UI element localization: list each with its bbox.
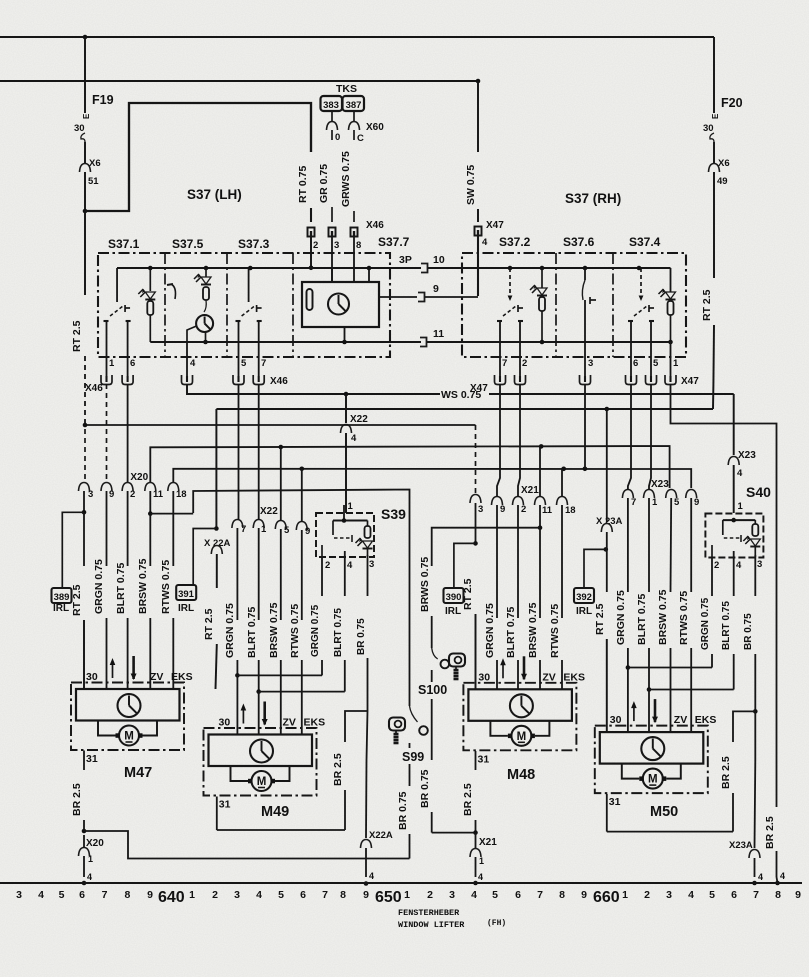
connector X60 pin 0 [327, 122, 338, 131]
svg-text:4: 4 [471, 889, 477, 901]
wire GR 0.75 from TKS 383 [331, 111, 333, 121]
svg-text:S39: S39 [381, 506, 406, 522]
svg-text:X23: X23 [651, 479, 669, 490]
svg-text:RTWS 0.75: RTWS 0.75 [289, 604, 301, 658]
svg-text:31: 31 [478, 753, 490, 765]
svg-text:M48: M48 [507, 767, 535, 783]
switch S37.4 [637, 266, 642, 271]
wire S40 pin3 down to X23A [754, 711, 756, 760]
wire F19 branch to S37 (LH) pin 2 [83, 209, 88, 214]
svg-text:31: 31 [609, 796, 621, 808]
svg-text:X6: X6 [89, 158, 101, 169]
svg-text:X20: X20 [86, 838, 104, 849]
feeds into S37.7 [367, 266, 372, 271]
svg-text:BRWS 0.75: BRWS 0.75 [419, 557, 431, 612]
wire F19 main RT 2.5 down left side [84, 211, 86, 295]
module S37.7 inner housing [302, 282, 379, 327]
wire BR 2.5 M50 ground loop [733, 711, 755, 742]
svg-text:RT 2.5: RT 2.5 [71, 320, 83, 352]
svg-text:4: 4 [369, 871, 374, 881]
svg-text:X21: X21 [521, 485, 539, 496]
svg-text:3P: 3P [399, 254, 412, 266]
S37 (LH) housing [98, 253, 390, 357]
svg-text:BLRT 0.75: BLRT 0.75 [636, 593, 648, 645]
svg-text:30: 30 [219, 717, 231, 729]
wire S40 pin3 BR [754, 555, 756, 596]
svg-text:4: 4 [256, 889, 262, 901]
S37.5 switch lever [171, 284, 176, 299]
svg-text:9: 9 [795, 889, 801, 901]
svg-text:1: 1 [261, 524, 267, 535]
junction M50 supply [605, 407, 610, 412]
label box 389 IRL [62, 512, 84, 588]
svg-text:BLRT 0.75: BLRT 0.75 [721, 601, 732, 650]
bus from F19 (row 3) to X21 pin 3 [85, 424, 476, 426]
svg-text:2: 2 [212, 889, 218, 901]
svg-text:31: 31 [86, 753, 98, 765]
connector X23 pin 4 (S40 feed) [728, 457, 739, 466]
wire X20-18 to M47 RTWS [172, 491, 174, 566]
connector X60 pin C [349, 122, 360, 131]
svg-text:EKS: EKS [171, 671, 193, 683]
wire M49 ground [216, 797, 218, 831]
svg-text:RT 0.75: RT 0.75 [297, 165, 309, 203]
wire GRWS 0.75 from TKS 387 [353, 111, 355, 121]
svg-text:9: 9 [363, 889, 369, 901]
svg-text:383: 383 [323, 100, 339, 111]
svg-text:X22A: X22A [369, 830, 393, 841]
svg-text:(FH): (FH) [487, 919, 506, 928]
label box 390 IRL [454, 543, 476, 588]
svg-text:5: 5 [674, 497, 680, 508]
svg-text:BR 2.5: BR 2.5 [332, 753, 344, 786]
svg-text:F20: F20 [721, 96, 743, 110]
svg-text:387: 387 [346, 100, 362, 111]
connector X47 pin 7 [495, 375, 506, 385]
wires S37.4 pins down to X23 [628, 384, 631, 490]
svg-text:3: 3 [666, 889, 672, 901]
svg-text:X46: X46 [85, 383, 103, 394]
svg-text:51: 51 [88, 176, 99, 187]
connector X46 pin 6 [122, 375, 133, 385]
svg-text:18: 18 [176, 489, 187, 500]
svg-text:18: 18 [565, 505, 576, 516]
wire GRGN junction to M49 [236, 660, 238, 675]
LH internal bus (to pin 3P) [117, 267, 421, 269]
svg-text:7: 7 [241, 524, 246, 535]
wire BLRT junction to M49 [258, 660, 260, 692]
svg-text:391: 391 [178, 589, 195, 600]
svg-text:30: 30 [703, 123, 714, 134]
wire S39 pin2 GRGN [321, 557, 323, 596]
svg-text:X6: X6 [718, 158, 730, 169]
svg-text:650: 650 [375, 889, 402, 906]
S40 switch [722, 520, 724, 535]
S40 LED [750, 539, 760, 546]
wire S39 pin3 BR [367, 555, 369, 596]
svg-text:8: 8 [356, 240, 361, 251]
svg-text:1: 1 [189, 889, 195, 901]
svg-text:1: 1 [404, 889, 410, 901]
svg-text:2: 2 [521, 504, 526, 515]
svg-text:M: M [517, 731, 527, 743]
svg-text:6: 6 [633, 358, 638, 369]
svg-text:BR 2.5: BR 2.5 [764, 816, 776, 849]
wires S37.3 pins down to X22 [238, 384, 240, 520]
svg-text:S37.7: S37.7 [378, 235, 410, 249]
svg-text:EKS: EKS [304, 717, 326, 729]
wire X20-11 to M47 BRSW [149, 491, 151, 566]
svg-text:9: 9 [581, 889, 587, 901]
wires S37.2 pins down to X21 [497, 384, 500, 497]
label box 391 IRL [193, 529, 216, 586]
svg-text:7: 7 [261, 358, 266, 369]
key switch S100 [449, 654, 465, 667]
svg-text:9: 9 [109, 489, 114, 500]
wire M47 ground BR 2.5 [83, 751, 85, 771]
svg-text:X22: X22 [350, 414, 368, 425]
wire F20 down to RT 2.5 bus [713, 172, 715, 278]
svg-text:3: 3 [369, 559, 374, 570]
svg-text:X46: X46 [270, 376, 288, 387]
connector X47 pin 3 [580, 375, 591, 385]
svg-text:RT 2.5: RT 2.5 [594, 603, 606, 635]
svg-text:30: 30 [610, 714, 622, 726]
svg-text:2: 2 [130, 489, 135, 500]
junction 389 stub [82, 510, 87, 515]
connector X46 pin 5 [233, 375, 244, 385]
connector X46 pin 3 [329, 228, 336, 237]
connector X47 pin 2 [515, 375, 526, 385]
junction stub to label 390 [473, 541, 478, 546]
svg-text:2: 2 [313, 240, 318, 251]
svg-text:SW 0.75: SW 0.75 [465, 165, 477, 205]
svg-text:4: 4 [736, 560, 742, 571]
connector X6 pin 51 (left) [80, 164, 91, 173]
svg-text:S37.5: S37.5 [172, 237, 204, 251]
S39 internal bus [343, 505, 345, 521]
svg-text:RT 2.5: RT 2.5 [203, 608, 215, 640]
svg-text:RTWS 0.75: RTWS 0.75 [160, 560, 172, 614]
wire S100 down BR 0.75 [431, 670, 433, 682]
svg-text:4: 4 [351, 433, 357, 444]
svg-text:5: 5 [59, 889, 65, 901]
svg-text:BLRT 0.75: BLRT 0.75 [505, 606, 517, 658]
svg-text:M49: M49 [261, 804, 289, 820]
svg-text:BLRT 0.75: BLRT 0.75 [115, 562, 127, 614]
svg-text:30: 30 [86, 671, 98, 683]
svg-text:BR 0.75: BR 0.75 [397, 791, 409, 830]
svg-text:E: E [82, 113, 91, 119]
svg-text:EKS: EKS [695, 714, 717, 726]
wire S99 down BR 0.75 [409, 743, 411, 748]
svg-text:9: 9 [433, 283, 439, 295]
svg-text:1: 1 [109, 358, 115, 369]
svg-text:1: 1 [738, 501, 744, 512]
svg-text:M50: M50 [650, 804, 678, 820]
bus row 5 (469) X20-18 to X23-9 [173, 469, 691, 488]
svg-text:4: 4 [190, 358, 196, 369]
svg-text:7: 7 [537, 889, 543, 901]
svg-text:2: 2 [427, 889, 433, 901]
svg-text:1: 1 [479, 856, 484, 866]
svg-text:S37.6: S37.6 [563, 235, 595, 249]
svg-text:3: 3 [449, 889, 455, 901]
junction stub to label 391 [214, 526, 219, 531]
S39 switch [332, 521, 334, 536]
svg-text:2: 2 [644, 889, 650, 901]
svg-text:M: M [257, 776, 267, 788]
lamp in S37.7 [328, 294, 349, 315]
wires X21 down to M48 [496, 505, 498, 618]
wire S37.7 to pin 9 line [379, 296, 417, 298]
connector X47 pin 6 [626, 375, 637, 385]
svg-text:EKS: EKS [563, 671, 585, 683]
wire transistor to pin 4 [187, 326, 197, 342]
svg-text:GRGN 0.75: GRGN 0.75 [484, 603, 496, 658]
svg-text:1: 1 [673, 358, 679, 369]
svg-text:S37 (RH): S37 (RH) [565, 191, 621, 206]
svg-text:FENSTERHEBER: FENSTERHEBER [398, 908, 460, 918]
svg-text:31: 31 [219, 799, 231, 811]
svg-text:X23: X23 [738, 450, 756, 461]
svg-text:3: 3 [478, 504, 483, 515]
svg-text:9: 9 [694, 497, 699, 508]
svg-text:BR 0.75: BR 0.75 [419, 769, 431, 808]
junction WS to S39 feed [344, 392, 349, 397]
svg-text:S37.2: S37.2 [499, 235, 531, 249]
svg-text:X 23A: X 23A [596, 516, 623, 527]
connector X47 pin 1 [670, 342, 672, 376]
lamp LED S37.4 with resistor [670, 268, 672, 292]
S37 (RH) housing [462, 253, 686, 357]
svg-text:RTWS 0.75: RTWS 0.75 [549, 604, 561, 658]
S40 resistor [754, 520, 756, 524]
connector X46 pin 1 [101, 375, 112, 385]
svg-text:8: 8 [559, 889, 565, 901]
svg-text:5: 5 [492, 889, 498, 901]
wire S40 pin4 BLRT [733, 551, 735, 596]
lamp LED S37.1 with resistor [148, 266, 153, 271]
svg-text:X23A: X23A [729, 840, 753, 851]
svg-text:6: 6 [515, 889, 521, 901]
wire S37.6 pin3 to bus row5 [584, 384, 586, 469]
svg-text:5: 5 [278, 889, 284, 901]
switch S37.2 [508, 266, 513, 271]
connector X47 pin 5 [646, 375, 657, 385]
svg-text:2: 2 [714, 560, 719, 571]
key switch S99 [389, 718, 405, 731]
wire M48 ground BR 2.5 [475, 751, 477, 770]
svg-text:2: 2 [522, 358, 527, 369]
svg-text:GRWS 0.75: GRWS 0.75 [340, 151, 352, 207]
svg-text:S37 (LH): S37 (LH) [187, 187, 242, 202]
S37.5 lamp LED and resistor [204, 266, 209, 271]
connector X46 pin 2 [308, 228, 315, 237]
svg-text:30: 30 [478, 671, 490, 683]
wires S37 LH pins down to X20 [106, 384, 108, 482]
wires bus row4/5 to X22 [280, 447, 282, 521]
svg-text:BR 0.75: BR 0.75 [356, 618, 367, 655]
svg-text:4: 4 [758, 872, 763, 882]
svg-text:4: 4 [482, 237, 488, 248]
svg-text:GRGN 0.75: GRGN 0.75 [93, 559, 105, 614]
svg-text:4: 4 [347, 560, 353, 571]
RH internal bus (line 10) [510, 267, 671, 269]
connector X46 pin 8 [351, 228, 358, 237]
svg-text:IRL: IRL [445, 606, 461, 617]
wire BR 2.5 S39 ground loop [345, 711, 368, 742]
svg-text:X22: X22 [260, 506, 278, 517]
svg-text:X20: X20 [130, 472, 148, 483]
svg-text:11: 11 [542, 505, 553, 516]
svg-text:E: E [711, 113, 720, 119]
svg-text:0: 0 [335, 132, 340, 143]
svg-text:30: 30 [74, 123, 85, 134]
svg-text:3: 3 [588, 358, 593, 369]
svg-text:7: 7 [102, 889, 108, 901]
wire M50 supply RT 2.5 [606, 409, 608, 522]
lamp LED S37.2 with resistor [540, 266, 545, 271]
svg-text:660: 660 [593, 889, 620, 906]
bus RT 2.5 from F20 (row 2) [216, 408, 713, 410]
svg-text:3: 3 [334, 240, 339, 251]
S37.5 pin 4 [186, 342, 188, 376]
wire S39 pin3 down to X22A [367, 711, 368, 760]
wire S37.4 pin1 ground to bottom right [671, 384, 777, 807]
svg-text:6: 6 [79, 889, 85, 901]
bus row 6 (490) to S99 [193, 490, 409, 707]
motor M48 [463, 683, 576, 751]
svg-text:S40: S40 [746, 484, 771, 500]
svg-text:392: 392 [576, 592, 592, 603]
svg-text:1: 1 [622, 889, 628, 901]
svg-text:M: M [648, 774, 658, 786]
top supply rail (terminal 30) [0, 36, 714, 38]
bottom rail [0, 882, 802, 884]
svg-text:4: 4 [87, 872, 92, 882]
svg-text:3: 3 [234, 889, 240, 901]
svg-text:X46: X46 [366, 220, 384, 231]
wire M50 ground [606, 794, 608, 832]
svg-text:GRGN 0.75: GRGN 0.75 [615, 590, 627, 645]
svg-text:GRGN 0.75: GRGN 0.75 [310, 604, 321, 657]
svg-text:6: 6 [300, 889, 306, 901]
svg-text:5: 5 [284, 525, 290, 536]
wire SW 0.75 from rail to X47 pin 4 [477, 81, 479, 152]
wire S39 pin4 BLRT [344, 551, 346, 596]
svg-text:RT 2.5: RT 2.5 [71, 584, 83, 616]
svg-text:BR 2.5: BR 2.5 [462, 783, 474, 816]
connector X22 pin 4 (S39 feed) [341, 425, 352, 434]
svg-text:7: 7 [502, 358, 507, 369]
wire transistor to internal bus 11 [205, 332, 207, 342]
svg-text:S99: S99 [402, 750, 424, 764]
svg-text:IRL: IRL [53, 603, 69, 614]
svg-text:4: 4 [38, 889, 44, 901]
wire S40 pin2 GRGN [711, 545, 713, 557]
svg-text:ZV: ZV [542, 671, 555, 683]
svg-text:X60: X60 [366, 122, 384, 133]
transistor S37.5 [204, 300, 206, 312]
fuse F19 [84, 37, 86, 113]
inline connector line 11 [420, 338, 427, 347]
svg-text:1: 1 [652, 497, 658, 508]
svg-text:9: 9 [147, 889, 153, 901]
switch S37.6 [583, 266, 588, 271]
svg-text:8: 8 [775, 889, 781, 901]
LH internal ground bus (pin 11) [150, 341, 421, 343]
wire BRWS 0.75 to S100 [432, 528, 540, 566]
svg-text:RT 2.5: RT 2.5 [701, 289, 713, 321]
svg-text:WS 0.75: WS 0.75 [441, 389, 481, 401]
svg-text:1: 1 [348, 501, 354, 512]
svg-text:11: 11 [153, 489, 164, 500]
svg-text:C: C [357, 133, 364, 144]
svg-text:9: 9 [500, 504, 505, 515]
svg-text:GR 0.75: GR 0.75 [318, 164, 330, 203]
svg-text:IRL: IRL [576, 606, 592, 617]
svg-text:49: 49 [717, 176, 728, 187]
svg-text:S37.4: S37.4 [629, 235, 661, 249]
switch S37.3 [248, 266, 253, 271]
element in S37.7 [307, 289, 313, 310]
svg-text:3: 3 [88, 489, 93, 500]
svg-text:ZV: ZV [283, 717, 296, 729]
svg-text:7: 7 [753, 889, 759, 901]
second supply rail [0, 80, 478, 82]
S39 LED [363, 541, 373, 548]
wire M49 supply RT 2.5 [215, 409, 217, 529]
svg-text:2: 2 [325, 560, 330, 571]
junction second rail / SW 0.75 drop [476, 79, 481, 84]
svg-text:4: 4 [780, 871, 785, 881]
svg-text:7: 7 [631, 497, 636, 508]
svg-text:4: 4 [478, 872, 483, 882]
svg-text:1: 1 [88, 854, 93, 864]
svg-text:ZV: ZV [150, 671, 163, 683]
svg-text:X21: X21 [479, 837, 497, 848]
wires X22 down to M49 [236, 528, 238, 620]
svg-text:X47: X47 [486, 220, 504, 231]
switch S37.1 [116, 268, 118, 302]
label box 392 IRL stub [604, 547, 609, 552]
svg-text:5: 5 [653, 358, 659, 369]
connector X6 pin 49 (right) [709, 164, 720, 173]
connector X46 pin 7 [253, 375, 264, 385]
svg-text:ZV: ZV [674, 714, 687, 726]
connector X46 pin 4 [182, 375, 193, 385]
svg-text:S37.3: S37.3 [238, 237, 270, 251]
svg-text:8: 8 [340, 889, 346, 901]
svg-text:BR 2.5: BR 2.5 [71, 783, 83, 816]
svg-text:BR 2.5: BR 2.5 [720, 756, 732, 789]
svg-text:IRL: IRL [178, 603, 194, 614]
wire WS 0.75 bus [187, 384, 440, 394]
svg-text:BLRT 0.75: BLRT 0.75 [333, 608, 344, 657]
svg-text:M47: M47 [124, 765, 152, 781]
junction top rail / F19 drop [83, 35, 88, 40]
svg-text:RT 2.5: RT 2.5 [462, 578, 474, 610]
svg-text:6: 6 [731, 889, 737, 901]
svg-text:7: 7 [322, 889, 328, 901]
svg-text:389: 389 [54, 592, 70, 603]
svg-text:F19: F19 [92, 93, 114, 107]
svg-text:8: 8 [124, 889, 130, 901]
svg-text:10: 10 [433, 254, 445, 266]
motor M49 [204, 728, 317, 796]
svg-text:9: 9 [305, 526, 310, 537]
